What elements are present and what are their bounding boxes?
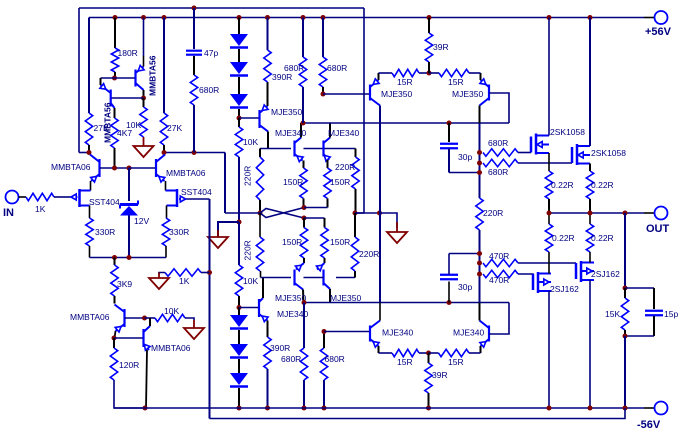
svg-text:3K9: 3K9 [117, 279, 132, 289]
svg-text:680R: 680R [327, 63, 347, 73]
svg-text:15R: 15R [448, 77, 464, 87]
svg-text:220R: 220R [483, 208, 503, 218]
svg-text:MJE350: MJE350 [381, 89, 412, 99]
svg-text:2SJ162: 2SJ162 [591, 269, 620, 279]
svg-text:0.22R: 0.22R [552, 233, 575, 243]
svg-text:680R: 680R [281, 354, 301, 364]
svg-text:470R: 470R [489, 251, 509, 261]
svg-text:MMBTA06: MMBTA06 [51, 162, 91, 172]
svg-text:MMBTA06: MMBTA06 [166, 168, 206, 178]
svg-text:47p: 47p [204, 48, 218, 58]
svg-text:MJE340: MJE340 [275, 128, 306, 138]
svg-text:330R: 330R [169, 227, 189, 237]
svg-text:0.22R: 0.22R [591, 233, 614, 243]
svg-text:MMBTA56: MMBTA56 [148, 55, 158, 96]
svg-text:27K: 27K [167, 123, 182, 133]
svg-text:220R: 220R [243, 240, 253, 260]
svg-text:2SK1058: 2SK1058 [591, 148, 626, 158]
svg-text:0.22R: 0.22R [591, 180, 614, 190]
svg-text:27K: 27K [94, 123, 109, 133]
svg-text:MJE340: MJE340 [328, 128, 359, 138]
svg-text:2SJ162: 2SJ162 [550, 284, 579, 294]
svg-text:10K: 10K [243, 137, 258, 147]
svg-text:680R: 680R [488, 138, 508, 148]
svg-text:MJE350: MJE350 [330, 293, 361, 303]
svg-text:680R: 680R [325, 354, 345, 364]
svg-text:680R: 680R [284, 63, 304, 73]
svg-text:MJE340: MJE340 [453, 328, 484, 338]
svg-text:MMBTA06: MMBTA06 [70, 312, 110, 322]
svg-text:SST404: SST404 [89, 197, 120, 207]
svg-text:MJE340: MJE340 [382, 328, 413, 338]
svg-text:OUT: OUT [646, 223, 670, 235]
svg-text:220R: 220R [243, 166, 253, 186]
svg-text:MMBTA06: MMBTA06 [151, 343, 191, 353]
svg-text:150R: 150R [283, 177, 303, 187]
svg-text:15K: 15K [605, 309, 620, 319]
svg-text:39R: 39R [433, 42, 449, 52]
svg-text:120R: 120R [119, 360, 139, 370]
svg-text:2SK1058: 2SK1058 [550, 127, 585, 137]
svg-text:MJE350: MJE350 [271, 107, 302, 117]
svg-text:MJE350: MJE350 [452, 89, 483, 99]
svg-text:30p: 30p [458, 152, 472, 162]
svg-text:+56V: +56V [645, 26, 672, 38]
svg-text:IN: IN [3, 207, 14, 219]
svg-text:220R: 220R [335, 162, 355, 172]
svg-text:330R: 330R [95, 227, 115, 237]
svg-text:SST404: SST404 [181, 187, 212, 197]
svg-text:30p: 30p [458, 282, 472, 292]
svg-text:15R: 15R [397, 77, 413, 87]
svg-text:12V: 12V [134, 216, 149, 226]
svg-text:39R: 39R [432, 370, 448, 380]
svg-text:390R: 390R [270, 343, 290, 353]
svg-text:180R: 180R [118, 48, 138, 58]
svg-text:390R: 390R [272, 72, 292, 82]
svg-text:15R: 15R [397, 357, 413, 367]
svg-text:220R: 220R [359, 249, 379, 259]
svg-text:10K: 10K [243, 276, 258, 286]
svg-text:1K: 1K [179, 276, 190, 286]
svg-text:10K: 10K [164, 306, 179, 316]
svg-text:1K: 1K [35, 204, 46, 214]
svg-text:150R: 150R [330, 177, 350, 187]
svg-text:15p: 15p [664, 309, 678, 319]
svg-text:-56V: -56V [637, 419, 661, 430]
svg-text:0.22R: 0.22R [551, 180, 574, 190]
svg-text:470R: 470R [489, 275, 509, 285]
svg-text:680R: 680R [199, 85, 219, 95]
svg-text:150R: 150R [282, 237, 302, 247]
svg-text:10K: 10K [126, 120, 141, 130]
svg-text:680R: 680R [488, 167, 508, 177]
svg-text:150R: 150R [330, 237, 350, 247]
svg-text:15R: 15R [448, 357, 464, 367]
